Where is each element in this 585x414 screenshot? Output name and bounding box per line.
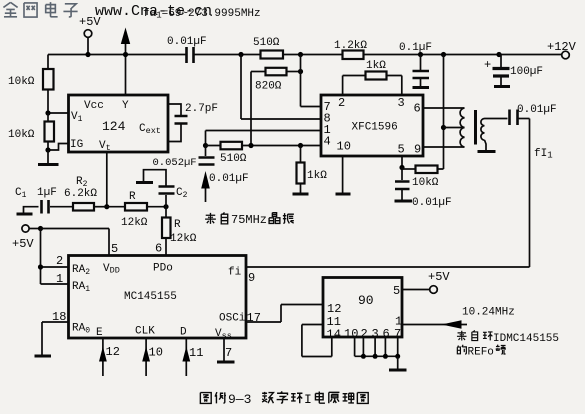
watermark 全网电子 grey: [3, 2, 77, 17]
input arrow pin11 D: [182, 338, 203, 376]
resistor 10k (pin5): [399, 156, 438, 189]
svg-text:10kΩ: 10kΩ: [8, 129, 35, 141]
svg-text:10kΩ: 10kΩ: [8, 76, 35, 88]
svg-text:0.052µF: 0.052µF: [153, 157, 197, 169]
svg-text:6: 6: [414, 102, 421, 116]
svg-text:fI1: fI1: [534, 148, 553, 161]
svg-text:IDMC145155: IDMC145155: [493, 333, 559, 345]
label 10.24MHz source 来自环IDMC145155: [457, 330, 559, 345]
wire Vss pin7 to ground: [217, 338, 235, 362]
svg-text:Vcc: Vcc: [84, 100, 104, 112]
svg-text:17: 17: [247, 311, 261, 325]
node pin4 row left: [203, 143, 208, 148]
svg-text:5: 5: [398, 143, 405, 157]
wire RA0 pin18 to ground: [35, 322, 69, 356]
resistor 510 (top): [253, 37, 283, 59]
resistor R 12k (horizontal): [107, 191, 166, 229]
resistor 10k (upper left): [8, 55, 54, 90]
pin number labels 2 1 5 6 18: [52, 242, 162, 325]
wire top supply rail: [48, 54, 562, 56]
wire OSCi pin17 to 90 pin12: [246, 305, 323, 326]
svg-text:7: 7: [225, 346, 232, 360]
svg-text:6: 6: [155, 242, 162, 256]
terminal +5V (mid left): [12, 225, 43, 251]
svg-text:4: 4: [324, 135, 331, 149]
ground (1k): [293, 193, 309, 196]
wire pin1 input with left arrow 10.24MHz: [402, 307, 515, 329]
svg-text:OSCi: OSCi: [219, 313, 246, 325]
svg-text:820Ω: 820Ω: [255, 81, 282, 93]
terminal +5V (90 pin5): [402, 270, 450, 293]
resistor 820: [251, 68, 303, 93]
svg-text:D: D: [180, 327, 187, 339]
wire +12V branch riser: [438, 52, 465, 169]
svg-text:VDD: VDD: [103, 263, 120, 276]
svg-text:12kΩ: 12kΩ: [121, 217, 148, 229]
svg-text:2: 2: [338, 96, 345, 110]
svg-text:510Ω: 510Ω: [253, 37, 280, 49]
svg-text:1kΩ: 1kΩ: [366, 60, 386, 72]
wire pin8 net: [241, 55, 321, 120]
svg-text:REFo: REFo: [468, 347, 494, 359]
svg-text:CLK: CLK: [135, 326, 155, 338]
resistor R 12k (vertical to PDo): [162, 207, 197, 256]
svg-text:100µF: 100µF: [510, 66, 543, 78]
arrow input from 75MHz crystal: [201, 171, 210, 202]
svg-text:10: 10: [344, 327, 358, 341]
svg-text:fa1=69~273.9995MHz: fa1=69~273.9995MHz: [143, 8, 261, 21]
capacitor 0.01uF (top left coupling): [167, 36, 207, 63]
svg-text:10.24MHz: 10.24MHz: [462, 307, 515, 319]
svg-text:12: 12: [327, 302, 341, 316]
capacitor 2.7pF on Cext: [168, 103, 218, 142]
svg-text:1.2kΩ: 1.2kΩ: [334, 40, 367, 52]
svg-text:10: 10: [149, 346, 163, 360]
svg-text:IG: IG: [70, 139, 83, 151]
wire pin7 net: [301, 55, 322, 107]
svg-text:6.2kΩ: 6.2kΩ: [64, 188, 97, 200]
svg-text:0.1µF: 0.1µF: [399, 42, 432, 54]
terminal +5V (top): [79, 15, 101, 55]
node on rail at Vcc riser: [85, 52, 90, 57]
capacitor 0.01uF (output coupling): [510, 104, 557, 125]
capacitor 0.1uF to ground: [399, 42, 432, 87]
op-amp U1 124 VCO box: [69, 95, 169, 153]
svg-text:I: I: [304, 392, 312, 407]
capacitor 0.01uF (pin5 bypass): [395, 168, 452, 210]
svg-text:9: 9: [248, 271, 255, 285]
node on rail at Y line: [123, 52, 128, 57]
label 来自75MHz晶振: [205, 212, 294, 227]
svg-text:1kΩ: 1kΩ: [307, 170, 327, 182]
capacitor C1 1uF: [15, 187, 57, 214]
transformer T1 primary: [423, 108, 465, 147]
svg-text:90: 90: [358, 293, 374, 308]
svg-text:11: 11: [189, 346, 203, 360]
wire 10k junction to V1: [45, 90, 68, 116]
ground (below 10k): [38, 150, 59, 165]
capacitor C2: [144, 170, 188, 207]
resistor 510 (lower): [206, 142, 322, 165]
node rail at pin7 riser: [298, 52, 303, 57]
wire XFC pin10 to ground: [336, 156, 351, 194]
svg-text:5: 5: [111, 242, 118, 256]
ground (pin5 bypass): [395, 200, 413, 203]
input arrow pin12 E: [99, 338, 120, 376]
wire 90 pin14 loop: [302, 325, 332, 357]
svg-text:12kΩ: 12kΩ: [170, 233, 197, 245]
resistor R2 6.2k: [50, 176, 107, 211]
ground (C1 left): [17, 207, 39, 214]
wire Vt down to filter node: [104, 152, 109, 209]
svg-text:+12V: +12V: [547, 40, 577, 54]
svg-text:9—3: 9—3: [228, 392, 251, 407]
svg-text:XFC1596: XFC1596: [352, 122, 398, 134]
node C2 / R junction: [163, 204, 168, 209]
ground (0.1uF): [413, 86, 430, 89]
wire +5V to VDD pin5: [41, 229, 110, 256]
ground (C2 top plate): [136, 181, 153, 184]
net fI1 down right side: [530, 119, 553, 268]
svg-text:R: R: [129, 191, 136, 203]
capacitor 100uF electrolytic: [484, 52, 543, 86]
svg-text:E: E: [96, 327, 103, 339]
IC U4 90 box: [323, 278, 402, 342]
wire 820 left leg down to pin4 row: [250, 72, 252, 146]
svg-text:R: R: [174, 219, 181, 231]
svg-text:MC145155: MC145155: [124, 291, 177, 303]
svg-text:5: 5: [393, 284, 400, 298]
input arrow pin10 CLK: [142, 338, 163, 376]
resistor 1.2k (rail): [334, 40, 367, 59]
svg-text:+: +: [484, 58, 491, 72]
svg-text:510Ω: 510Ω: [220, 153, 247, 165]
svg-text:75MHz: 75MHz: [231, 213, 267, 227]
wire fi pin9 net to fI1: [246, 267, 530, 285]
svg-text:1µF: 1µF: [37, 187, 57, 199]
svg-text:9: 9: [414, 143, 421, 157]
node rail at pin8 riser: [238, 52, 243, 57]
svg-text:1: 1: [56, 272, 63, 286]
caption 图例9-3 数字环I电原理图: [200, 391, 368, 407]
svg-text:0.01µF: 0.01µF: [209, 173, 249, 185]
svg-text:Y: Y: [122, 100, 129, 112]
svg-text:14: 14: [327, 328, 341, 342]
svg-text:124: 124: [102, 119, 126, 134]
svg-text:0.01µF: 0.01µF: [517, 104, 557, 116]
wire +5V to RA2/RA1: [38, 229, 69, 285]
resistor 10k (lower left): [8, 113, 54, 142]
wire IG jog: [45, 142, 68, 153]
capacitor 0.01uF (crystal input): [199, 146, 249, 186]
ground (90 bottom): [389, 369, 407, 372]
svg-text:0.01µF: 0.01µF: [167, 36, 207, 48]
IC U2 XFC1596 box: [321, 95, 423, 157]
svg-text:fi: fi: [228, 267, 242, 279]
ground (secondary): [478, 150, 496, 153]
svg-text:PDo: PDo: [153, 263, 173, 275]
wire 90 bottom pins bus to ground: [355, 337, 401, 370]
svg-text:+5V: +5V: [12, 237, 34, 251]
transformer core: [474, 110, 477, 145]
svg-text:2: 2: [56, 254, 63, 268]
wire pin1 net: [206, 131, 322, 146]
svg-text:10kΩ: 10kΩ: [412, 177, 439, 189]
svg-text:+5V: +5V: [428, 270, 450, 284]
resistor 1k (pin2-pin3 bridge): [343, 60, 402, 95]
terminal +12V: [547, 40, 577, 59]
transformer secondary: [481, 119, 508, 152]
svg-text:2.7pF: 2.7pF: [185, 103, 218, 115]
IC U3 MC145155 box: [69, 256, 247, 342]
wire Y output arrow to fa1: [121, 28, 130, 96]
svg-text:10: 10: [337, 140, 351, 154]
svg-text:3: 3: [398, 96, 405, 110]
svg-text:0.01µF: 0.01µF: [412, 197, 452, 209]
label 的REFo端: [457, 345, 505, 359]
svg-text:12: 12: [106, 345, 120, 359]
resistor 1k (below pin4 row): [297, 146, 328, 195]
ground (100uF): [494, 85, 510, 88]
